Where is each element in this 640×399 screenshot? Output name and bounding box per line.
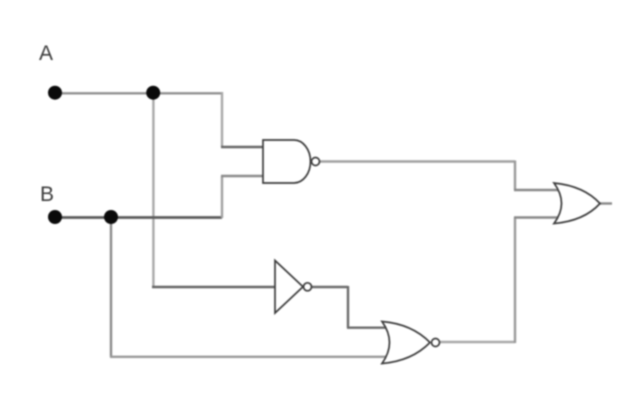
junction dot B branch bbox=[104, 210, 118, 224]
wire NOT input bbox=[152, 286, 280, 288]
NOT gate output bubble bbox=[304, 283, 312, 291]
wire NAND bottom input bbox=[221, 175, 268, 177]
wire B to NAND bottom vertical bbox=[221, 176, 223, 218]
wire A to NAND top vertical bbox=[221, 92, 223, 147]
svg-text:B: B bbox=[40, 183, 54, 206]
wire NOR output horizontal bbox=[440, 341, 515, 343]
wire OR top input bbox=[514, 189, 562, 191]
svg-text:A: A bbox=[39, 42, 53, 65]
wire NAND output vertical bbox=[514, 161, 516, 191]
wire NOT output vertical bbox=[347, 286, 349, 328]
wire NAND output horizontal bbox=[320, 160, 515, 162]
junction dot input A terminal bbox=[48, 86, 62, 100]
node label B bbox=[40, 183, 54, 206]
wire B branch vertical bbox=[110, 217, 112, 357]
NAND gate body bbox=[263, 140, 311, 183]
wire B main horizontal bbox=[55, 216, 222, 219]
OR gate body bbox=[554, 183, 600, 224]
NOT gate (inverter) triangle bbox=[275, 261, 303, 314]
wire NOT output horizontal bbox=[311, 286, 348, 288]
wire A branch vertical bbox=[152, 93, 154, 287]
wire NOR top input bbox=[347, 327, 392, 329]
wire NOR output vertical bbox=[514, 218, 516, 344]
NOR gate output bubble bbox=[432, 339, 440, 347]
wire B bottom horizontal to NOR bbox=[110, 356, 392, 358]
wire A main horizontal bbox=[55, 92, 222, 94]
NOR gate body bbox=[382, 322, 430, 364]
NAND gate output bubble bbox=[312, 158, 320, 166]
wire OR bottom input bbox=[514, 216, 562, 218]
junction dot A branch bbox=[146, 86, 160, 100]
wire OR output bbox=[600, 202, 612, 204]
wire NAND top input bbox=[221, 146, 268, 148]
node label A bbox=[39, 42, 53, 65]
junction dot input B terminal bbox=[48, 210, 62, 224]
